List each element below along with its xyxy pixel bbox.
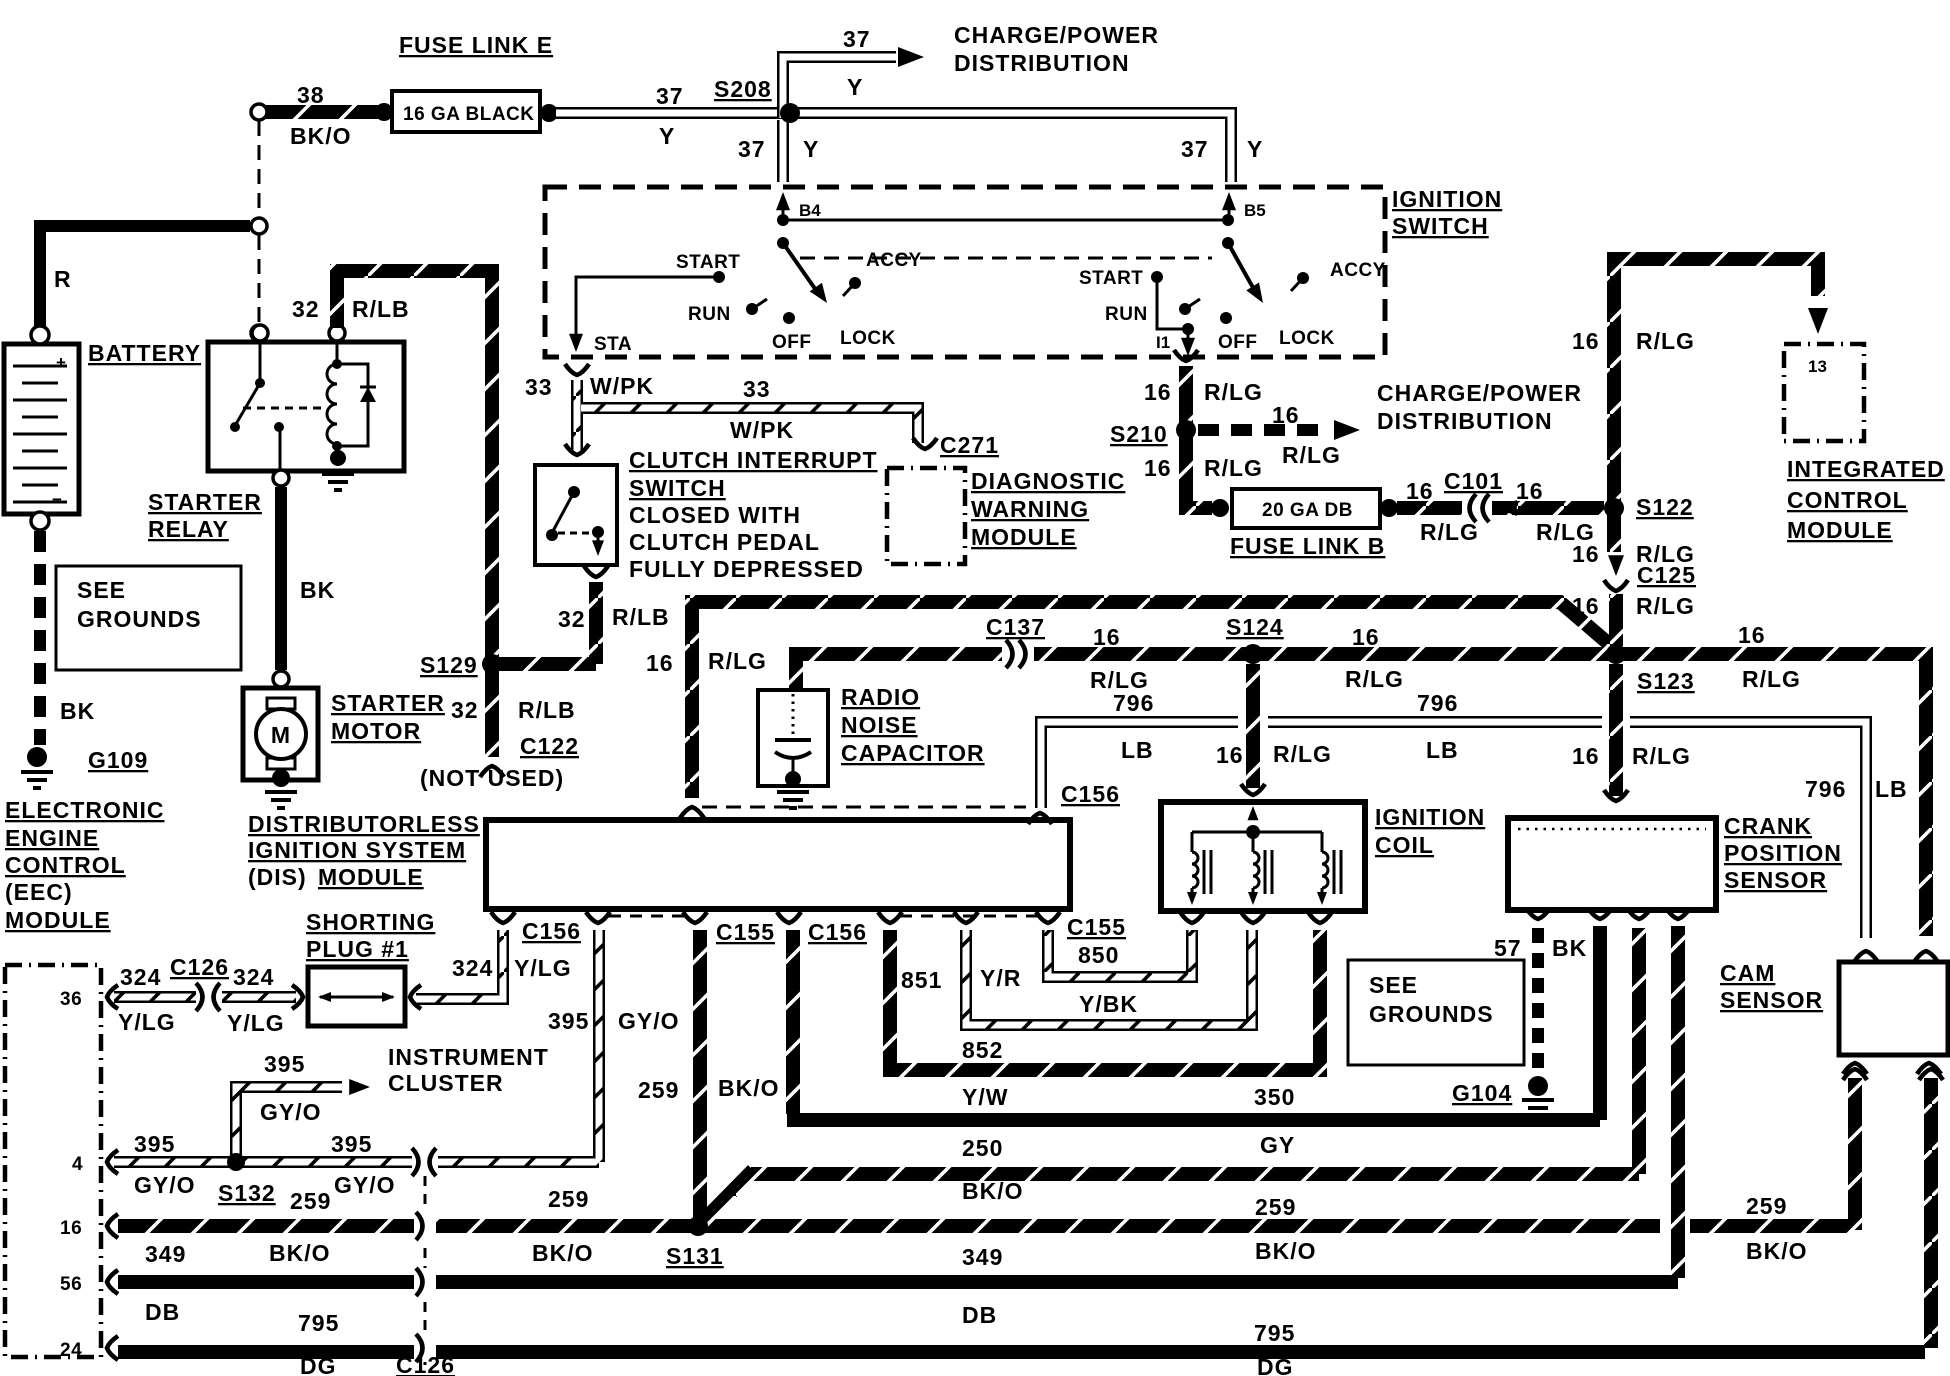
svg-text:IGNITION: IGNITION xyxy=(1375,804,1485,830)
svg-text:37: 37 xyxy=(1181,136,1209,162)
svg-text:RUN: RUN xyxy=(1105,304,1148,325)
wire 32 R/LB relay to S129 to C122 xyxy=(337,271,492,757)
right wiper arm xyxy=(1228,243,1256,293)
svg-text:R/LG: R/LG xyxy=(708,648,767,674)
svg-text:INSTRUMENT: INSTRUMENT xyxy=(388,1044,549,1070)
dashed BK/O drop wire xyxy=(258,121,261,217)
svg-text:DB: DB xyxy=(962,1302,997,1328)
connector coil feed connector xyxy=(1241,784,1265,795)
svg-text:BK/O: BK/O xyxy=(718,1075,780,1101)
svg-text:LOCK: LOCK xyxy=(840,328,896,349)
svg-text:C156: C156 xyxy=(1061,781,1120,807)
svg-text:STA: STA xyxy=(594,334,632,355)
svg-text:SEE: SEE xyxy=(77,577,126,603)
node S122 xyxy=(1604,498,1624,518)
svg-text:259: 259 xyxy=(290,1188,331,1214)
svg-text:S123: S123 xyxy=(1637,668,1695,694)
right contact ACCY xyxy=(1297,272,1309,284)
svg-text:START: START xyxy=(1079,268,1143,289)
wire 16 R/LG fuse link B to S122 xyxy=(1397,501,1604,515)
svg-text:SEE: SEE xyxy=(1369,972,1418,998)
starter motor xyxy=(273,671,289,687)
svg-text:32: 32 xyxy=(292,296,320,322)
svg-text:S122: S122 xyxy=(1636,494,1694,520)
relay switch internals xyxy=(259,341,262,380)
dashed link to C156 xyxy=(702,806,1026,809)
svg-text:C122: C122 xyxy=(520,733,579,759)
right contact START xyxy=(1151,271,1163,283)
S131 diagonal xyxy=(698,1170,753,1226)
svg-text:GY/O: GY/O xyxy=(618,1008,680,1034)
crank position sensor box xyxy=(1508,818,1716,910)
EEC pin 36 xyxy=(107,985,118,1009)
svg-text:CLOSED WITH: CLOSED WITH xyxy=(629,502,801,528)
EEC module dashed box xyxy=(5,965,101,1357)
svg-text:BATTERY: BATTERY xyxy=(88,340,201,366)
svg-text:MODULE: MODULE xyxy=(5,907,111,933)
starter relay box xyxy=(208,342,404,471)
svg-text:RUN: RUN xyxy=(688,304,731,325)
svg-text:W/PK: W/PK xyxy=(730,417,794,443)
integrated control module dashed box xyxy=(1784,344,1864,441)
node A top xyxy=(251,104,267,120)
coil bottom connectors xyxy=(1180,912,1204,923)
svg-text:GY/O: GY/O xyxy=(260,1099,322,1125)
svg-text:CLUTCH INTERRUPT: CLUTCH INTERRUPT xyxy=(629,447,878,473)
svg-text:R/LG: R/LG xyxy=(1636,328,1695,354)
connector C137 xyxy=(1002,641,1034,668)
svg-text:BK/O: BK/O xyxy=(290,123,352,149)
wire 259 BK/O main xyxy=(118,1219,1660,1233)
svg-text:+: + xyxy=(56,353,66,372)
svg-text:32: 32 xyxy=(558,606,586,632)
svg-text:R/LG: R/LG xyxy=(1632,743,1691,769)
wire 250 BK/O xyxy=(751,928,1639,1174)
svg-text:OFF: OFF xyxy=(772,332,812,353)
connector C156 xyxy=(1028,813,1052,824)
svg-text:BK/O: BK/O xyxy=(1746,1238,1808,1264)
ignition switch left feed B4 xyxy=(782,206,785,218)
svg-text:CHARGE/POWER: CHARGE/POWER xyxy=(1377,380,1582,406)
svg-text:SWITCH: SWITCH xyxy=(629,475,726,501)
svg-text:R/LG: R/LG xyxy=(1345,666,1404,692)
svg-text:WARNING: WARNING xyxy=(971,496,1089,522)
svg-text:851: 851 xyxy=(901,967,942,993)
cam sensor bottom connectors xyxy=(1843,1063,1867,1074)
I1 branch xyxy=(1157,277,1182,329)
svg-text:SWITCH: SWITCH xyxy=(1392,213,1489,239)
svg-text:GY: GY xyxy=(1260,1132,1295,1158)
svg-text:795: 795 xyxy=(298,1310,339,1336)
svg-text:ACCY: ACCY xyxy=(866,250,922,271)
svg-text:LB: LB xyxy=(1121,737,1154,763)
wire 16 R/LG S122 to C125 to S123 xyxy=(1607,518,1621,552)
radio noise capacitor xyxy=(758,690,828,786)
svg-text:259: 259 xyxy=(548,1186,589,1212)
node below B5 xyxy=(1222,237,1234,249)
svg-text:R/LB: R/LB xyxy=(612,604,670,630)
svg-text:795: 795 xyxy=(1254,1320,1295,1346)
node S129 xyxy=(482,654,502,674)
svg-text:BK: BK xyxy=(300,577,335,603)
svg-text:MODULE: MODULE xyxy=(1787,517,1893,543)
svg-text:850: 850 xyxy=(1078,942,1119,968)
svg-text:G104: G104 xyxy=(1452,1080,1512,1106)
svg-text:IGNITION SYSTEM: IGNITION SYSTEM xyxy=(248,837,466,863)
svg-text:324: 324 xyxy=(452,955,493,981)
wire 350 GY xyxy=(786,930,800,1114)
svg-text:BK/O: BK/O xyxy=(269,1240,331,1266)
svg-text:BK/O: BK/O xyxy=(1255,1238,1317,1264)
node B xyxy=(251,218,267,234)
svg-text:CLUSTER: CLUSTER xyxy=(388,1070,504,1096)
svg-text:852: 852 xyxy=(962,1037,1003,1063)
node below B4 xyxy=(777,237,789,249)
svg-text:SHORTING: SHORTING xyxy=(306,909,435,935)
DIS pin connectors xyxy=(491,912,515,923)
svg-text:CAPACITOR: CAPACITOR xyxy=(841,740,985,766)
svg-text:56: 56 xyxy=(60,1274,82,1295)
connector ignition switch output connector xyxy=(1174,350,1198,361)
coil primaries xyxy=(1246,825,1260,839)
left contact ACCY xyxy=(849,277,861,289)
svg-text:C126: C126 xyxy=(170,954,229,980)
svg-text:324: 324 xyxy=(120,964,161,990)
svg-text:DISTRIBUTION: DISTRIBUTION xyxy=(1377,408,1553,434)
wire 16 R/LG main bus lower radio capacitor to cam sensor xyxy=(796,654,1926,936)
svg-text:37: 37 xyxy=(656,83,684,109)
svg-text:16: 16 xyxy=(1572,541,1600,567)
svg-text:38: 38 xyxy=(297,82,325,108)
svg-text:S124: S124 xyxy=(1226,614,1284,640)
node S123 xyxy=(1606,644,1626,664)
svg-text:324: 324 xyxy=(233,964,274,990)
coil feed from S124 xyxy=(1246,664,1260,788)
svg-text:CRANK: CRANK xyxy=(1724,813,1812,839)
svg-text:16: 16 xyxy=(1572,328,1600,354)
svg-text:ELECTRONIC: ELECTRONIC xyxy=(5,797,165,823)
diagnostic warning module dashed box xyxy=(887,468,965,564)
svg-text:G109: G109 xyxy=(88,747,148,773)
svg-text:CLUTCH PEDAL: CLUTCH PEDAL xyxy=(629,529,820,555)
svg-text:OFF: OFF xyxy=(1218,332,1258,353)
node C xyxy=(251,325,267,341)
dashed link line xyxy=(800,257,1212,260)
svg-text:R/LG: R/LG xyxy=(1420,519,1479,545)
svg-text:MODULE: MODULE xyxy=(971,524,1077,550)
wire BK battery negative dashed xyxy=(34,531,46,745)
svg-text:395: 395 xyxy=(548,1008,589,1034)
svg-text:DG: DG xyxy=(300,1353,337,1376)
svg-text:16: 16 xyxy=(1216,742,1244,768)
svg-text:Y/LG: Y/LG xyxy=(227,1010,285,1036)
svg-text:S129: S129 xyxy=(420,652,478,678)
svg-text:GY/O: GY/O xyxy=(334,1172,396,1198)
relay ground xyxy=(330,450,346,466)
svg-text:395: 395 xyxy=(134,1131,175,1157)
svg-text:CAM: CAM xyxy=(1720,960,1775,986)
svg-text:BK: BK xyxy=(1552,935,1587,961)
svg-text:Y/LG: Y/LG xyxy=(118,1009,176,1035)
svg-text:S208: S208 xyxy=(714,76,772,102)
battery xyxy=(4,344,79,514)
svg-text:349: 349 xyxy=(962,1244,1003,1270)
svg-text:16: 16 xyxy=(60,1218,82,1239)
svg-text:16: 16 xyxy=(646,650,674,676)
svg-text:C156: C156 xyxy=(808,919,867,945)
connector clutch switch upper connector xyxy=(565,444,589,455)
wire 259 BK/O from DIS xyxy=(693,930,707,1218)
svg-text:I1: I1 xyxy=(1156,333,1170,352)
svg-text:B5: B5 xyxy=(1244,201,1266,220)
svg-text:R/LG: R/LG xyxy=(1636,593,1695,619)
svg-text:C155: C155 xyxy=(716,919,775,945)
svg-text:16: 16 xyxy=(1144,455,1172,481)
svg-text:RADIO: RADIO xyxy=(841,684,920,710)
crank sensor pin connectors xyxy=(1526,908,1550,919)
svg-text:13: 13 xyxy=(1808,357,1827,376)
SEE GROUNDS box left xyxy=(56,566,241,670)
bus B4 to B5 xyxy=(783,219,1228,222)
EEC pin 4 xyxy=(107,1150,118,1174)
wire 57 BK to G104 xyxy=(1532,928,1544,1076)
wire 32 R/LB S129 to clutch switch xyxy=(498,582,596,664)
svg-text:250: 250 xyxy=(962,1135,1003,1161)
connector STA connector xyxy=(565,364,589,375)
svg-text:Y: Y xyxy=(1247,136,1263,162)
svg-text:R: R xyxy=(54,266,72,292)
left contact OFF xyxy=(783,312,795,324)
svg-text:DISTRIBUTORLESS: DISTRIBUTORLESS xyxy=(248,811,480,837)
wire 852 Y/W xyxy=(890,930,1320,1070)
left wiper arm xyxy=(783,243,818,293)
svg-text:16: 16 xyxy=(1352,624,1380,650)
EEC pin 16 xyxy=(107,1214,118,1238)
svg-text:395: 395 xyxy=(264,1051,305,1077)
node G104 xyxy=(1528,1076,1548,1096)
EEC pin 24 xyxy=(107,1336,118,1360)
node G109 xyxy=(27,747,47,767)
svg-text:796: 796 xyxy=(1417,690,1458,716)
svg-text:CONTROL: CONTROL xyxy=(5,852,126,878)
svg-text:C101: C101 xyxy=(1444,468,1503,494)
svg-text:(EEC): (EEC) xyxy=(5,879,73,905)
connector C122 xyxy=(480,766,504,777)
svg-text:LB: LB xyxy=(1426,737,1459,763)
svg-text:16: 16 xyxy=(1572,743,1600,769)
svg-text:259: 259 xyxy=(1255,1194,1296,1220)
svg-text:LB: LB xyxy=(1875,776,1908,802)
svg-text:16: 16 xyxy=(1738,622,1766,648)
left contact START xyxy=(713,271,725,283)
ignition coil box xyxy=(1161,802,1365,911)
svg-text:16: 16 xyxy=(1406,478,1434,504)
DIS module box xyxy=(486,820,1070,909)
svg-text:R/LG: R/LG xyxy=(1273,741,1332,767)
svg-text:32: 32 xyxy=(451,697,479,723)
svg-text:C155: C155 xyxy=(1067,914,1126,940)
relay coil xyxy=(336,341,339,362)
svg-text:START: START xyxy=(676,252,740,273)
svg-text:33: 33 xyxy=(743,376,771,402)
svg-text:796: 796 xyxy=(1805,776,1846,802)
svg-text:16: 16 xyxy=(1516,478,1544,504)
svg-text:(NOT USED): (NOT USED) xyxy=(420,765,564,791)
svg-text:R/LG: R/LG xyxy=(1204,455,1263,481)
svg-text:CONTROL: CONTROL xyxy=(1787,487,1908,513)
svg-text:796: 796 xyxy=(1113,690,1154,716)
wire R battery to relay xyxy=(40,226,250,328)
STA branch xyxy=(576,277,719,342)
splice S208 xyxy=(780,103,800,123)
svg-text:BK: BK xyxy=(60,698,95,724)
svg-text:Y/LG: Y/LG xyxy=(514,955,572,981)
svg-text:FUSE LINK B: FUSE LINK B xyxy=(1230,533,1385,559)
svg-text:LOCK: LOCK xyxy=(1279,328,1335,349)
svg-text:M: M xyxy=(271,722,291,748)
svg-text:R/LG: R/LG xyxy=(1282,442,1341,468)
svg-text:DB: DB xyxy=(145,1299,180,1325)
svg-text:FULLY DEPRESSED: FULLY DEPRESSED xyxy=(629,556,864,582)
svg-text:33: 33 xyxy=(525,374,553,400)
connector C271 xyxy=(913,438,937,449)
svg-text:S132: S132 xyxy=(218,1180,276,1206)
svg-text:CHARGE/POWER: CHARGE/POWER xyxy=(954,22,1159,48)
connector 796 LB cam connector xyxy=(1854,951,1878,962)
svg-text:DIAGNOSTIC: DIAGNOSTIC xyxy=(971,468,1125,494)
svg-text:RELAY: RELAY xyxy=(148,516,229,542)
ignition switch dashed box xyxy=(545,187,1385,357)
svg-text:395: 395 xyxy=(331,1131,372,1157)
wire 795 DG xyxy=(118,1345,1925,1359)
svg-text:C126: C126 xyxy=(396,1352,455,1376)
svg-text:IGNITION: IGNITION xyxy=(1392,186,1502,212)
svg-text:(DIS): (DIS) xyxy=(248,864,307,890)
svg-text:Y: Y xyxy=(659,123,675,149)
svg-text:16: 16 xyxy=(1093,624,1121,650)
svg-text:W/PK: W/PK xyxy=(590,373,654,399)
svg-text:Y/W: Y/W xyxy=(962,1084,1008,1110)
wire 16 R/LG S123 down to crank sensor xyxy=(1609,664,1623,796)
svg-text:Y/R: Y/R xyxy=(980,965,1021,991)
svg-text:349: 349 xyxy=(145,1241,186,1267)
connector crank sensor connector xyxy=(1604,790,1628,801)
connector bus to C156 xyxy=(680,807,704,818)
node S124 xyxy=(1243,644,1263,664)
clutch interrupt switch box xyxy=(535,465,617,565)
svg-text:GY/O: GY/O xyxy=(134,1172,196,1198)
svg-text:R/LB: R/LB xyxy=(518,697,576,723)
svg-text:20 GA DB: 20 GA DB xyxy=(1262,500,1353,521)
svg-text:16 GA BLACK: 16 GA BLACK xyxy=(403,104,534,125)
connector cam sensor feed connector xyxy=(1914,951,1938,962)
svg-text:STARTER: STARTER xyxy=(331,690,445,716)
svg-text:36: 36 xyxy=(60,989,82,1010)
EEC pin 56 xyxy=(107,1270,118,1294)
svg-text:C156: C156 xyxy=(522,918,581,944)
node S131 xyxy=(688,1216,708,1236)
svg-text:ACCY: ACCY xyxy=(1330,260,1386,281)
svg-text:COIL: COIL xyxy=(1375,832,1434,858)
svg-text:Y: Y xyxy=(803,136,819,162)
cam sensor box xyxy=(1839,962,1948,1055)
node S132 xyxy=(227,1153,245,1171)
connector C101 xyxy=(1462,494,1492,522)
svg-text:16: 16 xyxy=(1144,379,1172,405)
svg-text:FUSE LINK E: FUSE LINK E xyxy=(399,32,553,58)
svg-text:MODULE: MODULE xyxy=(318,864,424,890)
left contact RUN xyxy=(746,303,758,315)
svg-text:Y/BK: Y/BK xyxy=(1079,991,1138,1017)
svg-text:37: 37 xyxy=(843,26,871,52)
svg-text:259: 259 xyxy=(1746,1193,1787,1219)
svg-text:C137: C137 xyxy=(986,614,1045,640)
svg-text:S131: S131 xyxy=(666,1243,724,1269)
svg-text:STARTER: STARTER xyxy=(148,489,262,515)
connector clutch switch lower connector xyxy=(584,566,608,577)
svg-text:MOTOR: MOTOR xyxy=(331,718,421,744)
svg-text:57: 57 xyxy=(1494,935,1522,961)
svg-text:PLUG #1: PLUG #1 xyxy=(306,936,409,962)
connector C125 xyxy=(1604,580,1628,591)
relay diode xyxy=(337,364,368,446)
svg-text:259: 259 xyxy=(638,1077,679,1103)
wire 16 R/LG S210 to fuse link B xyxy=(1186,436,1212,508)
svg-text:GROUNDS: GROUNDS xyxy=(1369,1001,1494,1027)
svg-text:C125: C125 xyxy=(1637,562,1696,588)
svg-text:INTEGRATED: INTEGRATED xyxy=(1787,456,1945,482)
svg-text:DG: DG xyxy=(1257,1354,1294,1376)
connector C126 dashed line xyxy=(424,1176,427,1365)
wire 16 R/LG S122 up to integrated control module xyxy=(1614,259,1818,518)
svg-text:DISTRIBUTION: DISTRIBUTION xyxy=(954,50,1130,76)
fuse link E body 16 GA BLACK xyxy=(392,91,540,132)
right contact RUN xyxy=(1179,303,1191,315)
svg-text:24: 24 xyxy=(60,1340,82,1361)
svg-text:POSITION: POSITION xyxy=(1724,840,1842,866)
node S210 xyxy=(1176,420,1196,440)
wire 16 R/LG main bus upper xyxy=(692,602,1616,798)
svg-text:R/LG: R/LG xyxy=(1204,379,1263,405)
wire 16 R/LG dashed arrow to charge/power distribution xyxy=(1198,424,1330,436)
right contact OFF xyxy=(1220,312,1232,324)
svg-text:SENSOR: SENSOR xyxy=(1724,867,1827,893)
shorting plug #1 xyxy=(308,967,405,1026)
ignition switch right feed B5 xyxy=(1228,206,1231,218)
SEE GROUNDS box right xyxy=(1348,960,1524,1065)
svg-text:BK/O: BK/O xyxy=(532,1240,594,1266)
fuse link B body 20 GA DB xyxy=(1232,489,1380,528)
svg-text:37: 37 xyxy=(738,136,766,162)
svg-text:B4: B4 xyxy=(799,201,821,220)
svg-text:GROUNDS: GROUNDS xyxy=(77,606,202,632)
wire 38 BK/O fusible link xyxy=(264,105,378,119)
svg-text:BK/O: BK/O xyxy=(962,1178,1024,1204)
svg-text:R/LB: R/LB xyxy=(352,296,410,322)
svg-text:350: 350 xyxy=(1254,1084,1295,1110)
svg-text:4: 4 xyxy=(72,1154,83,1175)
svg-text:−: − xyxy=(52,490,62,509)
wire 349 DB xyxy=(118,1275,1678,1289)
svg-text:ENGINE: ENGINE xyxy=(5,825,99,851)
wire BK relay to starter motor xyxy=(275,487,287,670)
svg-text:16: 16 xyxy=(1272,402,1300,428)
svg-text:Y: Y xyxy=(847,74,863,100)
svg-text:R/LG: R/LG xyxy=(1742,666,1801,692)
svg-text:S210: S210 xyxy=(1110,421,1168,447)
svg-text:SENSOR: SENSOR xyxy=(1720,987,1823,1013)
svg-text:NOISE: NOISE xyxy=(841,712,918,738)
